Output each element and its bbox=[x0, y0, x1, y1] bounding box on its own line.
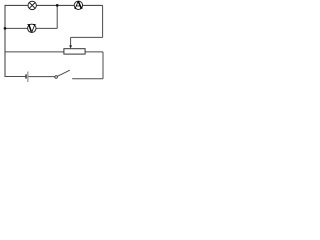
wire bottom left horizontal bbox=[5, 76, 26, 78]
rheostat R body bbox=[64, 49, 85, 54]
wire right lower vertical bbox=[102, 52, 104, 79]
wire top horizontal bbox=[5, 4, 103, 6]
ammeter A label bbox=[74, 1, 82, 8]
wire bottom right horizontal bbox=[72, 78, 103, 80]
voltmeter V label bbox=[27, 24, 35, 31]
wire rheostat wiper vertical bbox=[70, 37, 72, 45]
junction node top (voltmeter tap) bbox=[56, 4, 59, 7]
wire voltmeter branch vertical bbox=[56, 5, 58, 28]
wire right upper vertical bbox=[102, 5, 104, 37]
battery positive plate (long thin) bbox=[27, 72, 29, 83]
wire battery to switch bbox=[28, 76, 54, 78]
ammeter A circle bbox=[74, 1, 82, 9]
switch S blade (open) bbox=[57, 70, 69, 76]
wire voltmeter branch horizontal bbox=[5, 27, 57, 29]
rheostat wiper arrowhead bbox=[69, 45, 72, 48]
wire rheostat right terminal bbox=[85, 51, 103, 53]
switch S pivot bbox=[55, 76, 58, 79]
battery negative plate (short thick) bbox=[25, 74, 27, 78]
junction node left (voltmeter tap) bbox=[4, 27, 7, 30]
wire rheostat left terminal bbox=[5, 51, 64, 53]
wire rheostat wiper horizontal bbox=[71, 36, 103, 38]
lamp L cross bbox=[29, 3, 35, 9]
voltmeter V circle bbox=[28, 24, 36, 32]
lamp L circle bbox=[28, 1, 36, 9]
wire left vertical bbox=[4, 5, 6, 77]
